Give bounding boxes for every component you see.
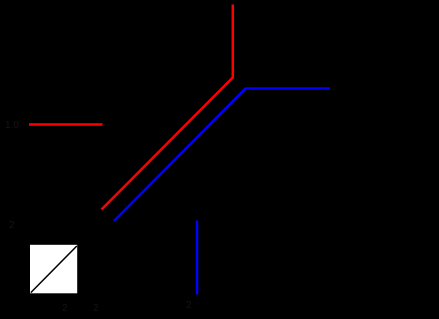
svg-text:2: 2 — [186, 300, 192, 311]
svg-text:2: 2 — [62, 303, 68, 314]
svg-text:2: 2 — [9, 220, 15, 231]
svg-text:2: 2 — [93, 303, 99, 314]
svg-text:1.0: 1.0 — [5, 120, 19, 131]
